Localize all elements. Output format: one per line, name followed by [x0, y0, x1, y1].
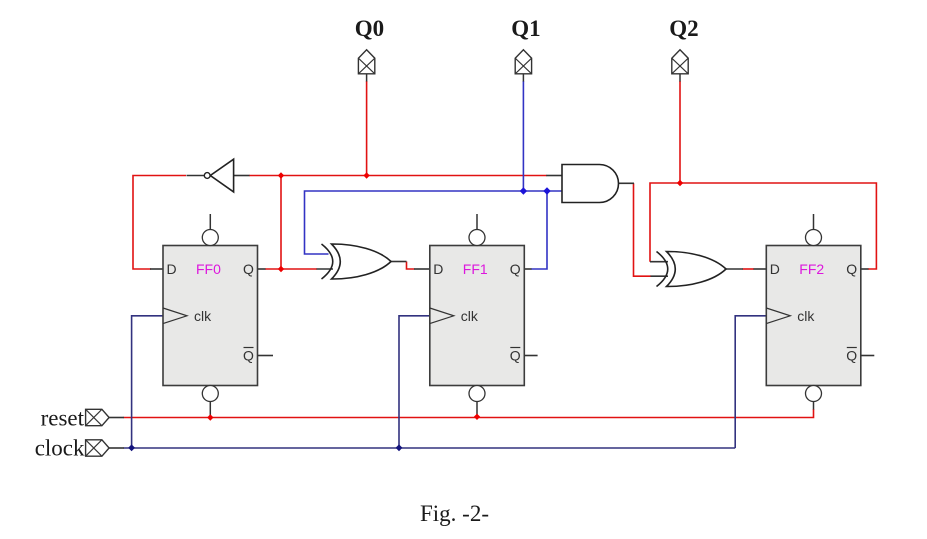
- svg-text:Q0: Q0: [355, 16, 384, 41]
- wire: reset pin stub: [109, 417, 124, 419]
- svg-text:clock: clock: [35, 436, 85, 461]
- junction on Q0 net at FF0 Q: [278, 266, 284, 272]
- junction on Q2 net: [677, 180, 683, 186]
- wire: Q1 horizontal to XOR1 (blue): [305, 191, 562, 254]
- wire: FF2 Q pin stub: [861, 268, 869, 270]
- svg-text:Q: Q: [510, 348, 521, 364]
- wire: Q1 pin stub: [522, 74, 524, 82]
- wire: inverter input stub: [234, 175, 250, 177]
- flip-flop FF2: [766, 214, 874, 402]
- input pin clock: [86, 440, 110, 456]
- XOR gate X1: [322, 244, 392, 279]
- junction on clock rail at FF1 branch: [396, 444, 403, 451]
- wire: FF2 D pin stub: [754, 268, 767, 270]
- svg-text:Q2: Q2: [669, 16, 698, 41]
- wire: clock pin stub: [109, 447, 124, 449]
- wire: FF1 bottom circle stub: [476, 402, 478, 418]
- wire: XOR2 top input stub: [650, 261, 668, 263]
- svg-text:D: D: [167, 261, 177, 277]
- wire: Q0 vertical FF0.Q to top line (red): [280, 176, 282, 270]
- wire: FF1 D pin stub: [414, 268, 430, 270]
- svg-text:clk: clk: [194, 308, 212, 324]
- wire: Q2 riser to Q2 pin (red): [679, 81, 681, 183]
- svg-text:FF1: FF1: [463, 261, 488, 277]
- AND gate U2: [562, 165, 619, 203]
- wire: AND gate top input stub: [546, 175, 562, 177]
- wire: FF2 bottom circle stub: [813, 402, 815, 410]
- svg-text:Q: Q: [243, 348, 254, 364]
- inverter (NOT gate, pointing left): [204, 159, 233, 192]
- wire: XOR1 output to FF1 D (red with jog): [407, 262, 415, 270]
- wire: clock branch to FF0 clk (navy): [132, 316, 163, 448]
- output pin Q2: [672, 50, 688, 74]
- wire: FF0 Q to XOR1 bottom input (red): [265, 268, 317, 270]
- wire: Q0 vertical riser to Q0 pin (red): [366, 81, 368, 176]
- wire: FF0 Q pin stub: [258, 268, 266, 270]
- wire: XOR2 output to FF2 D (red): [743, 268, 755, 270]
- svg-text:D: D: [433, 261, 443, 277]
- wire: Q0 net horizontal top (red): [249, 175, 547, 177]
- wire: Q0 pin stub: [366, 74, 368, 82]
- wire: FF0 D pin stub: [150, 268, 163, 270]
- wire: AND output stub: [619, 182, 635, 184]
- wire: Q2 pin stub: [679, 74, 681, 82]
- wire: Q1 riser to Q1 pin (blue): [522, 81, 524, 191]
- flip-flop FF0: [163, 214, 273, 402]
- svg-text:Q: Q: [510, 261, 521, 277]
- wire: Q1 net FF1.Q riser (blue): [531, 192, 547, 270]
- wire: XOR1 bottom input stub: [317, 268, 334, 270]
- wire: inverter output loop to FF0 D (red): [133, 176, 186, 270]
- wire: reset rail (red): [124, 409, 814, 418]
- wire: FF0 bottom circle stub: [209, 402, 211, 418]
- wire: XOR1 output stub: [391, 261, 407, 263]
- wire: clock rail (navy): [124, 447, 736, 449]
- svg-text:Fig. -2-: Fig. -2-: [420, 501, 489, 526]
- input pin reset: [86, 409, 110, 425]
- junction on Q1 net at FF1 Q riser: [543, 187, 550, 194]
- XOR gate X2: [657, 251, 727, 286]
- junction on Q0 net at Q0 riser: [363, 172, 369, 178]
- svg-text:Q: Q: [243, 261, 254, 277]
- svg-text:FF2: FF2: [799, 261, 824, 277]
- output pin Q1: [515, 50, 531, 74]
- wire: XOR2 output stub: [726, 268, 743, 270]
- svg-text:Q1: Q1: [511, 16, 540, 41]
- wire: FF1 Q pin stub: [524, 268, 531, 270]
- flip-flop FF1: [430, 214, 538, 402]
- junction on reset rail under FF0: [207, 414, 213, 420]
- junction on Q1 net at Q1 riser: [520, 187, 527, 194]
- junction on clock rail near pin: [128, 444, 135, 451]
- wire: Q2 net FF2.Q riser and top run (red): [650, 183, 876, 269]
- svg-text:Q: Q: [846, 348, 857, 364]
- output pin Q0: [358, 50, 374, 74]
- junction on reset rail under FF1: [474, 414, 480, 420]
- wire: clock branch to FF1 clk (navy): [399, 316, 430, 448]
- svg-text:clk: clk: [461, 308, 479, 324]
- svg-text:reset: reset: [41, 406, 85, 431]
- svg-text:Q: Q: [846, 261, 857, 277]
- junction on Q0 net at top line left: [278, 172, 284, 178]
- svg-text:FF0: FF0: [196, 261, 221, 277]
- svg-text:D: D: [770, 261, 780, 277]
- svg-text:clk: clk: [797, 308, 815, 324]
- wire: clock branch to FF2 clk (navy): [735, 316, 766, 448]
- wire: XOR2 bottom input stub: [651, 275, 669, 277]
- wire: inverter output stub: [187, 175, 205, 177]
- wire: AND output down to XOR2 bottom input (red): [634, 183, 652, 276]
